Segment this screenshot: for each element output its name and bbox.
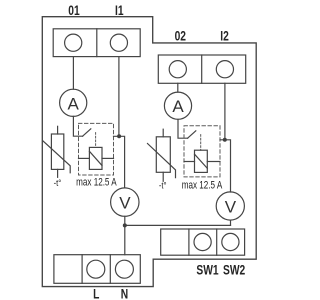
thermistor RT2 top lead xyxy=(162,129,164,137)
voltmeter V1 xyxy=(111,188,139,216)
label max 12.5 A (K2) xyxy=(182,179,223,191)
label -t° (RT2) xyxy=(159,180,167,191)
svg-text:A: A xyxy=(68,94,80,113)
terminal O1 xyxy=(65,34,82,51)
thermistor RT2 diagonal xyxy=(148,144,176,178)
thermistor RT2 bottom lead xyxy=(162,172,164,181)
wire I1 down to node A xyxy=(118,57,120,137)
mechanical link K1 xyxy=(95,133,97,148)
switch contact K2 xyxy=(188,131,196,138)
label N xyxy=(121,286,128,300)
svg-text:N: N xyxy=(121,286,128,300)
svg-text:02: 02 xyxy=(175,28,187,44)
terminal block SW1/SW2 xyxy=(161,229,245,255)
wire O2 to ammeter A2 xyxy=(177,83,179,92)
node A junction dot xyxy=(117,134,121,138)
terminal block L/N xyxy=(54,255,140,284)
terminal I2 xyxy=(216,61,233,78)
label SW1 xyxy=(196,262,218,278)
wire A1 to switch K1 xyxy=(73,116,82,136)
terminal SW2 xyxy=(222,233,239,250)
svg-text:SW2: SW2 xyxy=(223,262,245,278)
module outline xyxy=(42,17,256,287)
thermistor RT1 diagonal xyxy=(43,141,70,173)
svg-text:SW1: SW1 xyxy=(196,262,218,278)
svg-text:V: V xyxy=(119,193,131,212)
svg-text:max 12.5 A: max 12.5 A xyxy=(182,179,223,191)
label L xyxy=(93,286,99,300)
terminal block O1/I1 xyxy=(53,29,140,57)
label O2 xyxy=(175,28,187,44)
label max 12.5 A (K1) xyxy=(76,176,117,188)
switch contact K1 xyxy=(83,129,91,136)
relay K2 dashed enclosure xyxy=(184,126,220,177)
wire bus node B to V2 xyxy=(125,224,231,226)
mechanical link K2 xyxy=(200,135,202,151)
terminal block O2/I2 xyxy=(158,55,245,83)
terminal L xyxy=(87,260,105,278)
coil K1 right lead xyxy=(102,157,114,159)
svg-text:L: L xyxy=(93,286,99,300)
terminal O2 xyxy=(169,61,186,78)
ammeter A2 xyxy=(164,92,191,119)
label I1 xyxy=(115,2,124,18)
svg-text:-t°: -t° xyxy=(159,180,167,191)
wire O1 to ammeter A1 xyxy=(72,57,74,90)
svg-text:I2: I2 xyxy=(220,28,229,44)
node C junction dot xyxy=(223,138,227,142)
label I2 xyxy=(220,28,229,44)
svg-text:01: 01 xyxy=(68,2,80,18)
wire switch K1 output to node A xyxy=(114,136,125,188)
svg-text:A: A xyxy=(172,97,184,116)
ammeter A1 xyxy=(60,89,87,116)
coil K2 left lead xyxy=(184,161,195,163)
svg-text:V: V xyxy=(225,197,237,216)
voltmeter V2 xyxy=(216,192,244,220)
wire I2 down to node C xyxy=(224,83,226,140)
terminal N xyxy=(115,260,133,278)
label O1 xyxy=(68,2,80,18)
thermistor RT1 top lead xyxy=(57,126,59,134)
wire V1 down to terminal N xyxy=(124,216,126,254)
thermistor RT2 body xyxy=(156,137,170,173)
wire V2 down to bus xyxy=(230,220,232,225)
label SW2 xyxy=(223,262,245,278)
coil K2 right lead xyxy=(207,161,220,163)
terminal I1 xyxy=(110,34,127,51)
relay coil K2 xyxy=(195,150,208,172)
svg-text:-t°: -t° xyxy=(54,177,62,188)
relay coil K1 xyxy=(89,147,102,169)
thermistor RT1 body xyxy=(51,134,63,169)
svg-text:max 12.5 A: max 12.5 A xyxy=(76,176,117,188)
wire A2 to switch K2 xyxy=(178,119,188,138)
thermistor RT1 bottom lead xyxy=(57,169,59,177)
terminal SW1 xyxy=(194,233,211,250)
label -t° (RT1) xyxy=(54,177,62,188)
relay K1 dashed enclosure xyxy=(79,123,114,175)
svg-text:I1: I1 xyxy=(115,2,124,18)
coil K1 left lead xyxy=(79,157,90,159)
node B junction dot xyxy=(123,223,127,227)
wire switch K2 output to node C xyxy=(220,140,231,192)
